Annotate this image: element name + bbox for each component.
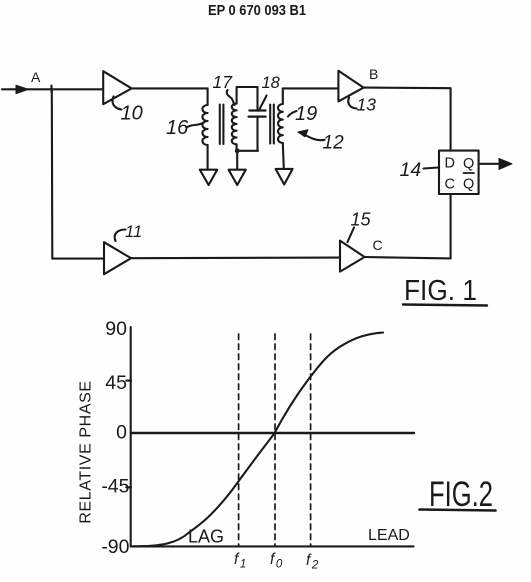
ground G1 xyxy=(200,170,217,185)
amplifier 11 xyxy=(104,242,131,274)
FIG.1 underline xyxy=(403,305,487,306)
svg-text:C: C xyxy=(445,177,455,193)
capacitor 18 top plate xyxy=(249,109,265,111)
capacitor 18 bottom plate xyxy=(249,115,266,117)
amplifier 15 xyxy=(340,241,365,272)
label 13 pointer xyxy=(348,98,356,109)
inductor 17 bottom lead xyxy=(236,144,238,151)
label 10 pointer xyxy=(112,97,121,110)
junction dot xyxy=(235,148,240,153)
amplifier 10 xyxy=(103,71,131,104)
wire A branch down xyxy=(51,89,54,258)
svg-text:FIG.2: FIG.2 xyxy=(429,475,493,514)
label 12 arrowhead xyxy=(298,130,308,137)
svg-text:Q: Q xyxy=(463,156,474,172)
label 18 pointer xyxy=(260,96,267,109)
dashed line f0 xyxy=(274,334,276,546)
wire coil16 to ground xyxy=(207,145,209,170)
ground G3 xyxy=(276,169,293,185)
output wire xyxy=(479,163,500,165)
output arrowhead xyxy=(499,158,512,169)
label 14 pointer xyxy=(424,168,439,169)
svg-text:45: 45 xyxy=(105,372,127,394)
wire A to amp 10 xyxy=(52,88,104,90)
transformer core 2 xyxy=(270,105,274,144)
Qbar overline xyxy=(464,172,475,174)
svg-text:18: 18 xyxy=(262,74,281,92)
svg-text:A: A xyxy=(31,69,41,85)
label 19 pointer xyxy=(288,111,297,117)
label 12 arrow xyxy=(304,134,325,140)
zero line xyxy=(131,432,414,434)
svg-text:10: 10 xyxy=(121,103,143,125)
svg-text:13: 13 xyxy=(357,95,377,115)
label 15 pointer xyxy=(348,228,355,243)
y-axis xyxy=(130,327,132,546)
coil 19 top lead xyxy=(282,88,284,104)
capacitor 18 top lead xyxy=(256,87,258,111)
wire junction to ground xyxy=(236,151,238,170)
svg-text:16: 16 xyxy=(166,117,189,139)
dashed line f1 xyxy=(238,334,240,546)
svg-text:14: 14 xyxy=(400,159,422,181)
svg-text:f1: f1 xyxy=(234,551,246,571)
svg-text:12: 12 xyxy=(323,133,345,154)
wire coil19 to ground xyxy=(283,143,284,169)
amplifier 13 xyxy=(338,71,363,102)
svg-text:f0: f0 xyxy=(270,551,283,571)
wire flip-flop down to lower path xyxy=(450,194,452,258)
svg-text:-45: -45 xyxy=(101,476,129,498)
inductor 17 box top xyxy=(237,87,258,104)
lower wire left xyxy=(52,258,104,260)
tick -45 xyxy=(126,486,131,488)
label 16 pointer xyxy=(187,123,204,128)
svg-text:D: D xyxy=(445,156,455,172)
input arrowhead xyxy=(16,85,29,93)
svg-text:11: 11 xyxy=(125,223,142,241)
svg-text:LEAD: LEAD xyxy=(368,527,410,544)
tick 45 xyxy=(126,380,131,382)
inductor 17 xyxy=(232,104,237,145)
svg-text:19: 19 xyxy=(295,103,317,125)
wire amp10 to transformer xyxy=(132,87,208,89)
svg-text:RELATIVE PHASE: RELATIVE PHASE xyxy=(78,380,95,523)
phase curve xyxy=(132,333,383,547)
svg-text:FIG. 1: FIG. 1 xyxy=(404,275,477,307)
svg-text:B: B xyxy=(369,66,378,82)
FIG.2 underline xyxy=(420,510,496,511)
svg-text:15: 15 xyxy=(351,210,372,230)
flip-flop 14 xyxy=(439,151,479,194)
svg-text:Q: Q xyxy=(463,177,474,193)
LC loop bottom wire xyxy=(237,150,258,152)
input wire xyxy=(2,88,52,90)
wire B to flip-flop xyxy=(364,88,451,151)
inductor 19 xyxy=(278,104,283,143)
node A junction tick xyxy=(50,86,52,93)
dashed line f2 xyxy=(310,334,312,546)
capacitor 18 bottom lead xyxy=(256,116,258,150)
lower wire middle xyxy=(131,257,340,260)
svg-text:17: 17 xyxy=(213,72,234,92)
svg-text:0: 0 xyxy=(116,422,127,444)
x-axis xyxy=(131,545,414,547)
label 17 pointer xyxy=(227,90,235,105)
svg-text:-90: -90 xyxy=(101,536,129,558)
label 11 pointer xyxy=(115,230,126,242)
ground G2 xyxy=(229,170,246,185)
svg-text:LAG: LAG xyxy=(188,527,224,547)
lower wire right xyxy=(365,257,451,258)
svg-text:C: C xyxy=(373,237,383,253)
wire coil19 to amp 13 xyxy=(283,87,339,89)
svg-text:90: 90 xyxy=(105,318,127,340)
transformer core 1 xyxy=(220,105,224,145)
coil 16 top lead xyxy=(207,88,209,105)
svg-text:f2: f2 xyxy=(306,552,319,572)
svg-text:EP 0 670 093 B1: EP 0 670 093 B1 xyxy=(208,2,306,19)
inductor 16 xyxy=(202,105,207,145)
